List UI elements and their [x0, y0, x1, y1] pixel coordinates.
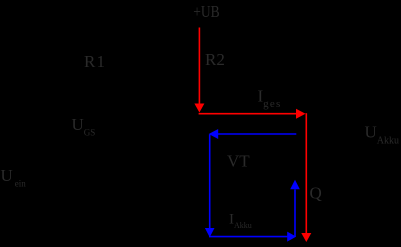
- wire bottom rail: [47, 244, 312, 246]
- svg-text:Q: Q: [310, 184, 322, 203]
- arrowhead blue left: [209, 129, 219, 139]
- wire left rail: [47, 13, 49, 246]
- svg-text:+UB: +UB: [193, 3, 219, 22]
- svg-text:VT: VT: [227, 152, 250, 171]
- wire top rail: [47, 12, 193, 14]
- wire node line: [199, 116, 312, 118]
- current arrow Iges (red, from +UB down through R2): [198, 28, 200, 105]
- arrowhead Iges right: [296, 109, 306, 119]
- wire blue vertical right segment: [294, 190, 296, 237]
- arrowhead Iges down: [194, 104, 204, 113]
- wire blue horizontal bottom segment: [209, 236, 288, 238]
- arrowhead blue up: [290, 180, 300, 190]
- arrowhead blue right: [287, 232, 296, 242]
- arrowhead blue down at bottom-left corner: [205, 228, 215, 237]
- wire red horizontal segment of Iges path: [199, 113, 297, 115]
- arrowhead charging current down: [301, 233, 311, 242]
- wire red vertical charging segment: [305, 113, 307, 233]
- wire blue vertical left segment: [209, 135, 211, 229]
- svg-text:R2: R2: [205, 50, 225, 69]
- label +UB supply: [193, 3, 219, 22]
- blue current path horizontal top segment: [218, 133, 296, 135]
- wire supply stub: [198, 18, 200, 28]
- wire right battery branch: [311, 117, 313, 245]
- svg-text:R1: R1: [84, 52, 105, 71]
